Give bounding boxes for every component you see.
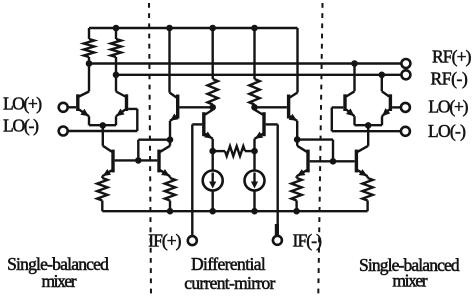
svg-text:IF(-): IF(-): [293, 231, 323, 251]
arrow: Q7 emitter: [204, 132, 213, 139]
svg-text:current-mirror: current-mirror: [184, 273, 275, 293]
svg-text:Differential: Differential: [191, 254, 266, 274]
transistor Q1 (left diff pair, LO+): [78, 64, 89, 126]
resistor R8 (Q11 emitter degeneration): [291, 178, 301, 211]
wire: common emitters down to Q3 collector: [102, 125, 104, 145]
transistor Q11 (right mirror driver): [297, 140, 333, 178]
svg-text:mixer: mixer: [392, 271, 427, 291]
transistor Q12 (right mixer driver): [333, 146, 368, 178]
svg-text:RF(+): RF(+): [432, 47, 472, 67]
wire: LO(-) to Q2 base: [67, 109, 137, 131]
node: R8 bottom on rail: [293, 208, 300, 215]
node: Q3/Q4 joined bases: [135, 157, 142, 164]
arrow: Q5 emitter: [170, 114, 178, 121]
label: right section name: [359, 255, 460, 275]
node: Q10 collector on RF(-) rail: [379, 72, 386, 79]
transistor Q5 (mirror, left outer): [170, 93, 213, 140]
arrow: Q10 emitter: [382, 108, 390, 116]
svg-text:IF(+): IF(+): [148, 231, 181, 251]
wire: supply rail corner to Q6 collector: [296, 28, 298, 93]
arrow: Q12 emitter: [359, 169, 368, 176]
label: right section name line 2: [392, 271, 427, 291]
node: R6 top on supply rail: [251, 25, 258, 32]
label: center section name line 2: [184, 273, 275, 293]
terminal LO(-) right: [401, 127, 410, 136]
svg-text:RF(-): RF(-): [431, 69, 468, 89]
resistor R9 (Q12 emitter degeneration): [362, 178, 372, 211]
boundary: left dashed separator: [149, 3, 151, 297]
terminal LO(-) left: [59, 127, 68, 136]
svg-text:LO(+): LO(+): [3, 94, 42, 114]
node: Q11 collector / Q6 emitter: [294, 136, 301, 143]
wire: RF(-) rail: [116, 74, 402, 76]
wire: Q10 base to LO(+): [392, 106, 401, 108]
resistor R6 (right mirror load): [249, 28, 259, 107]
wire: supply rail to Q5 collector: [168, 28, 170, 93]
node: left diff pair common emitters: [100, 122, 107, 129]
transistor Q4 (left mirror driver): [138, 140, 170, 178]
transistor Q6 (mirror, right outer): [255, 93, 298, 140]
label: left section name: [7, 254, 109, 274]
node: R1 bottom on RF(+) rail: [86, 60, 93, 67]
arrow: Q3 emitter: [103, 169, 111, 176]
svg-text:LO(+): LO(+): [428, 97, 468, 117]
arrow: Q1 emitter: [80, 109, 89, 116]
terminal LO(+) left: [59, 103, 68, 112]
node: Q11/Q12 joined bases: [330, 158, 337, 165]
transistor Q7 (mirror, left inner): [192, 107, 212, 151]
node: R5 bottom / Q5 base / Q7 collector: [209, 104, 216, 111]
wire: right diff pair emitter bus: [355, 124, 383, 126]
terminal RF(-): [401, 70, 410, 79]
label: left section name line 2: [41, 271, 76, 291]
wire: top supply rail: [89, 27, 298, 29]
resistor R5 (left mirror load): [208, 28, 218, 107]
label IF(+): [148, 231, 181, 251]
svg-text:LO(-): LO(-): [3, 115, 39, 135]
wire: common emitters down to Q12 collector: [367, 125, 369, 145]
label IF(-): [293, 231, 323, 251]
current source I1: [203, 151, 223, 211]
current source I2: [245, 151, 265, 211]
wire: Q4 collector node to bases: [138, 140, 170, 161]
node: I1 bottom on rail: [209, 208, 216, 215]
wire: Q9 base to LO(-): [332, 107, 401, 131]
node: I2 bottom on rail: [251, 208, 258, 215]
transistor Q8 (mirror, right inner): [255, 107, 278, 151]
label LO(-) right: [428, 121, 466, 141]
wire: bottom common rail: [102, 210, 367, 212]
resistor R1 (left load, collector of Q1): [84, 28, 94, 64]
label RF(+): [432, 47, 472, 67]
terminal IF(-): [273, 236, 282, 245]
terminal IF(+): [188, 236, 197, 245]
resistor R4 (Q4 emitter degeneration): [165, 178, 175, 211]
terminal LO(+) right: [401, 103, 410, 112]
node: right diff pair common emitters: [365, 122, 372, 129]
node: Q9 collector on RF(+) rail: [351, 60, 358, 67]
transistor Q2 (left diff pair, LO-): [116, 75, 127, 125]
svg-text:mixer: mixer: [41, 271, 76, 291]
wire: IF(-) lead: [277, 124, 279, 236]
node: Q8 emitter / R7 right / I2: [251, 148, 258, 155]
arrow: Q4 emitter: [161, 169, 170, 176]
label LO(-) left: [3, 115, 39, 135]
node: R6 bottom / Q6 base / Q8 collector: [251, 104, 258, 111]
node: R2 bottom on RF(-) rail: [113, 72, 120, 79]
node: Q7 emitter / R7 left / I1: [209, 148, 216, 155]
wire: RF(+) rail: [89, 62, 402, 64]
wire: left diff pair emitter bus: [89, 124, 116, 126]
node: R4 bottom on rail: [167, 208, 174, 215]
transistor Q3 (left mixer driver): [102, 146, 138, 178]
terminal RF(+): [401, 59, 410, 68]
node: R5 top on supply rail: [209, 25, 216, 32]
arrow: Q11 emitter: [297, 169, 306, 176]
boundary: right dashed separator: [318, 3, 322, 295]
wire: IF(-) lead bold segment: [275, 224, 279, 235]
label LO(+) left: [3, 94, 42, 114]
resistor R3 (Q3 emitter degeneration): [97, 178, 107, 211]
label: center section name: [191, 254, 266, 274]
svg-text:LO(-): LO(-): [428, 121, 466, 141]
transistor Q9 (right diff pair, LO-): [345, 64, 355, 126]
resistor R2 (left load, collector of Q2): [111, 28, 121, 75]
arrow: Q6 emitter: [289, 114, 298, 121]
wire: Q11 collector node to bases: [297, 140, 333, 162]
node: Q4 collector / Q5 emitter: [167, 136, 174, 143]
arrow: Q8 emitter: [255, 132, 264, 139]
arrow: Q9 emitter: [346, 108, 355, 116]
arrow: Q2 emitter: [116, 109, 125, 117]
node: Q5 feed on supply rail: [166, 25, 173, 32]
label RF(-): [431, 69, 468, 89]
resistor R7 (emitter coupling, horizontal): [213, 146, 255, 156]
wire: IF(+) lead: [191, 124, 193, 236]
wire: LO(+) to Q1 base: [67, 106, 76, 108]
node: R2 top on supply rail: [113, 25, 120, 32]
transistor Q10 (right diff pair, LO+): [382, 75, 391, 125]
label LO(+) right: [428, 97, 468, 117]
